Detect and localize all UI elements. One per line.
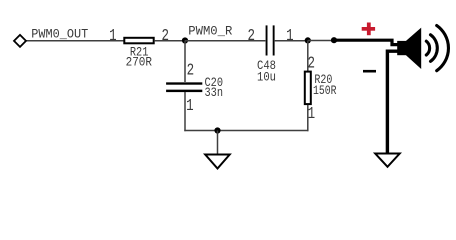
wire PWM0_OUT from connector to R21 pin 1: [25, 40, 124, 42]
wire R21 pin 2 to node PWM0_R: [155, 40, 186, 42]
minus polarity mark: [363, 70, 376, 73]
ground symbol right (below speaker): [375, 154, 400, 167]
wire ground stub: [217, 131, 219, 155]
svg-text:1: 1: [286, 26, 294, 45]
svg-text:PWM0_R: PWM0_R: [188, 25, 232, 39]
speaker sound wave arc 1: [426, 41, 429, 55]
wire junction to speaker net: [308, 40, 334, 42]
svg-text:2: 2: [187, 60, 195, 79]
wire C20 pin 1 down to bottom rail: [184, 92, 186, 131]
connector pin PWM0_OUT (diamond): [14, 35, 26, 47]
thick wire speaker minus terminal down to ground: [387, 51, 397, 153]
speaker sound wave arc 2: [431, 35, 438, 62]
wire node PWM0_R down to C20 pin 2: [184, 41, 186, 83]
svg-text:2: 2: [248, 26, 256, 45]
wire node PWM0_R to C48 pin 2: [185, 40, 265, 42]
svg-text:1: 1: [186, 96, 194, 115]
resistor R20 body: [305, 72, 311, 105]
junction at R20 branch: [305, 37, 311, 43]
capacitor C20 plate bottom: [166, 90, 202, 92]
capacitor C48 plate left: [266, 25, 268, 55]
wire C48 pin 1 to junction: [274, 40, 308, 42]
bottom rail wire: [184, 130, 308, 132]
junction at speaker net: [331, 37, 337, 43]
speaker LS1 driver body: [397, 41, 406, 55]
svg-text:2: 2: [161, 26, 169, 45]
junction node PWM0_R: [182, 37, 188, 43]
svg-text:10u: 10u: [257, 69, 276, 84]
plus polarity mark: [362, 23, 375, 36]
svg-text:270R: 270R: [126, 54, 153, 69]
svg-text:1: 1: [109, 26, 117, 45]
ground symbol left: [205, 155, 230, 169]
speaker sound wave arc 3: [437, 26, 449, 71]
capacitor C48 plate right: [273, 25, 275, 55]
svg-text:PWM0_OUT: PWM0_OUT: [31, 27, 88, 42]
svg-text:33n: 33n: [205, 85, 224, 100]
speaker LS1 cone: [406, 28, 421, 69]
junction at ground tap: [214, 127, 220, 133]
capacitor C20 plate top: [166, 82, 202, 84]
svg-text:150R: 150R: [313, 83, 337, 98]
thick wire to speaker plus terminal: [334, 40, 398, 44]
wire R20 pin 1 down to bottom rail: [307, 105, 309, 131]
resistor R21 body: [124, 38, 153, 44]
svg-text:2: 2: [307, 53, 315, 72]
wire R20 branch down from junction: [307, 41, 309, 72]
svg-text:1: 1: [308, 104, 316, 123]
